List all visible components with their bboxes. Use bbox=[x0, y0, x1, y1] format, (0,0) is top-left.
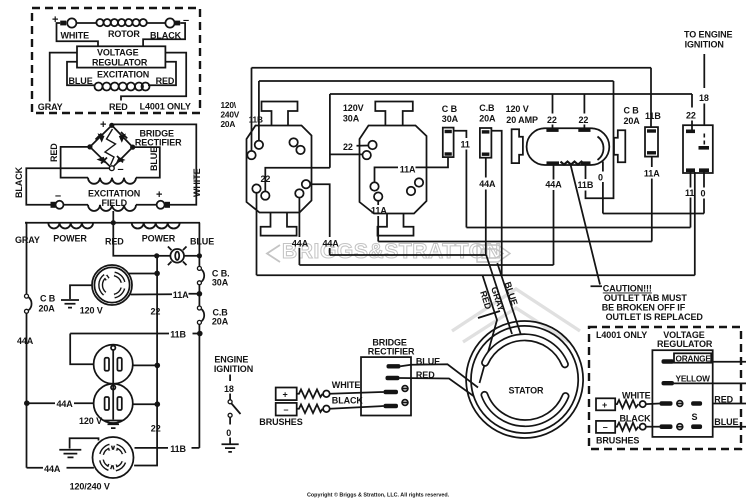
wire to pilot lamp bbox=[157, 255, 171, 257]
wire 44A drop 2 bbox=[298, 198, 300, 265]
slot blue bbox=[387, 364, 401, 368]
svg-text:+: + bbox=[602, 400, 607, 410]
wire 44A gray drop bbox=[256, 193, 258, 275]
svg-text:GRAY: GRAY bbox=[15, 235, 40, 245]
excitation coil bbox=[95, 83, 150, 91]
svg-text:11B: 11B bbox=[249, 115, 263, 125]
svg-text:22: 22 bbox=[151, 424, 161, 434]
wire stator bus RED bbox=[330, 254, 487, 256]
wire GRAY down bbox=[25, 223, 27, 295]
junction dot bbox=[154, 253, 159, 258]
svg-text:BLUE: BLUE bbox=[69, 76, 93, 86]
wire white 2 bbox=[646, 403, 660, 406]
octagon2 terminals bbox=[368, 141, 376, 149]
svg-text:44A: 44A bbox=[292, 239, 309, 249]
svg-text:20A: 20A bbox=[479, 114, 496, 124]
wire line1 drop to breaker block bbox=[650, 68, 652, 127]
svg-text:120 V: 120 V bbox=[506, 104, 529, 114]
wire lamp to BLUE drop bbox=[184, 255, 199, 257]
wire regulator left inner (BLUE) bbox=[67, 62, 94, 85]
resistor black 2 bbox=[615, 423, 638, 431]
bridge rectifier box U2 bbox=[361, 357, 411, 415]
svg-text:L4001 ONLY: L4001 ONLY bbox=[596, 330, 647, 340]
caution leader line bbox=[571, 165, 603, 287]
wire 22 into block bbox=[691, 94, 693, 130]
svg-text:120 V: 120 V bbox=[80, 306, 103, 316]
wire stator bus GRAY bbox=[299, 264, 553, 266]
wire RED diagonal to stator bbox=[480, 275, 498, 383]
diode top-right bbox=[119, 134, 126, 143]
wire 0 bus bbox=[603, 213, 704, 215]
power coil right bbox=[132, 223, 180, 229]
ground wire left bbox=[70, 285, 92, 299]
svg-text:44A: 44A bbox=[57, 399, 74, 409]
svg-text:20 AMP: 20 AMP bbox=[506, 115, 538, 125]
svg-text:BLUE: BLUE bbox=[190, 237, 214, 247]
svg-text:RED: RED bbox=[49, 143, 59, 162]
svg-text:S: S bbox=[692, 412, 698, 422]
wire regulator right inner (RED) bbox=[148, 62, 176, 85]
wire 44A drop from duplex bbox=[553, 165, 555, 265]
octagon1 bottom bracket bbox=[261, 213, 297, 236]
svg-text:BLACK: BLACK bbox=[332, 396, 364, 406]
rotor coil bbox=[76, 22, 96, 24]
L4001 only dashed enclosure (bottom-right) bbox=[589, 327, 741, 449]
slot yellow bbox=[662, 381, 675, 385]
svg-text:OUTLET IS REPLACED: OUTLET IS REPLACED bbox=[606, 312, 704, 322]
svg-text:+: + bbox=[100, 119, 106, 131]
grid line 3 (22 bus) bbox=[330, 93, 692, 95]
wire center tap from field coil bbox=[112, 211, 114, 223]
svg-text:POWER: POWER bbox=[53, 234, 87, 244]
wire RED tap down bbox=[113, 223, 156, 256]
svg-text:C B: C B bbox=[442, 104, 458, 114]
wire BLUE riser mid bbox=[198, 285, 200, 306]
svg-text:11A: 11A bbox=[644, 169, 660, 179]
wire 11A octagon2 to CB30A bbox=[375, 157, 449, 182]
ground symbol bbox=[61, 300, 79, 308]
svg-text:BRUSHES: BRUSHES bbox=[259, 417, 302, 427]
slot white bbox=[384, 390, 399, 394]
svg-text:0: 0 bbox=[598, 173, 603, 183]
svg-text:11B: 11B bbox=[170, 444, 186, 454]
ground symbol ignition bbox=[222, 444, 239, 452]
svg-text:11: 11 bbox=[685, 188, 694, 198]
circuit breaker C.B 20A (right of column) bbox=[197, 306, 201, 310]
wire 44A jog from octagon1 bbox=[310, 184, 330, 255]
octagon outlet 2 (120V 30A) bbox=[360, 126, 427, 214]
wire 11B to duplex bbox=[70, 333, 200, 335]
wire yellow out bbox=[674, 382, 746, 384]
svg-text:YELLOW: YELLOW bbox=[676, 373, 711, 383]
wire GRAY diagonal to stator bbox=[486, 255, 512, 334]
diode top-left bbox=[98, 133, 105, 142]
varistor zigzag inside bridge bbox=[105, 129, 116, 165]
svg-text:–: – bbox=[118, 164, 124, 176]
wire white to box bbox=[330, 392, 384, 394]
breaker block 11B/11A bbox=[645, 127, 658, 157]
svg-text:+: + bbox=[283, 390, 288, 400]
svg-text:+: + bbox=[156, 189, 162, 201]
wire black to box bbox=[330, 406, 384, 409]
svg-text:REGULATOR: REGULATOR bbox=[657, 339, 713, 349]
svg-text:–: – bbox=[603, 422, 608, 432]
junction 44A tap bbox=[24, 400, 30, 406]
svg-text:C B: C B bbox=[624, 106, 640, 116]
label box ORANGE bbox=[674, 353, 711, 362]
svg-text:18: 18 bbox=[699, 93, 709, 103]
L4001-only dashed enclosure (top-left) bbox=[32, 8, 200, 113]
duplex bottom slots and tab bbox=[547, 161, 560, 165]
svg-text:ROTOR: ROTOR bbox=[108, 29, 140, 39]
svg-text:–: – bbox=[183, 15, 189, 27]
circuit breaker C B. 30A bbox=[197, 266, 201, 270]
wire 11 drop from block bbox=[690, 172, 692, 228]
slot blue pair bbox=[660, 424, 673, 429]
svg-text:RECTIFIER: RECTIFIER bbox=[135, 138, 182, 148]
wire left node loop to field coil top bbox=[61, 147, 90, 178]
svg-text:VOLTAGE: VOLTAGE bbox=[97, 48, 139, 58]
diode bottom-right bbox=[116, 157, 126, 163]
svg-text:11A: 11A bbox=[400, 165, 416, 175]
resistor black bbox=[297, 405, 323, 414]
octagon1 top bracket bbox=[262, 102, 298, 126]
svg-text:STATOR: STATOR bbox=[509, 386, 544, 396]
wire stator bus BLUE (44A) bbox=[257, 274, 695, 276]
wire rotor left to regulator bbox=[57, 23, 99, 46]
wire 22 link octagon1 to octagon2 bbox=[265, 94, 363, 191]
wire 11A drop from block bbox=[651, 157, 653, 242]
svg-text:44A: 44A bbox=[545, 179, 562, 189]
svg-text:RED: RED bbox=[109, 102, 128, 112]
voltage regulator box U1 bbox=[77, 46, 165, 67]
wire BLUE drop bbox=[198, 223, 200, 267]
wire 0 drop from block bbox=[703, 172, 705, 214]
svg-text:WHITE: WHITE bbox=[332, 380, 361, 390]
wire 11B to outlet bbox=[135, 447, 200, 449]
svg-text:44A: 44A bbox=[17, 336, 34, 346]
rotor right terminal bbox=[147, 22, 166, 24]
svg-text:22: 22 bbox=[686, 111, 696, 121]
voltage regulator box U3 bbox=[652, 350, 712, 437]
svg-text:C.B: C.B bbox=[479, 103, 495, 113]
svg-text:Copyright © Briggs & Stratton,: Copyright © Briggs & Stratton, LLC. All … bbox=[307, 492, 450, 499]
resistor white 2 bbox=[615, 400, 638, 408]
stator outer ring bbox=[466, 321, 583, 438]
wire red to stator bbox=[400, 378, 474, 396]
duplex outlet upper bbox=[94, 345, 133, 384]
svg-text:20A: 20A bbox=[39, 304, 56, 314]
svg-text:120V: 120V bbox=[343, 103, 364, 113]
wire 11B loop from duplex bbox=[586, 81, 614, 198]
engine ignition terminal block bbox=[683, 125, 713, 173]
ground wire from outlet bbox=[70, 438, 99, 448]
wire line1 drop to octagon1 bbox=[251, 68, 253, 151]
svg-text:120\: 120\ bbox=[221, 100, 237, 110]
wire right node to BLUE drop bbox=[133, 147, 160, 178]
svg-text:GRAY: GRAY bbox=[38, 102, 63, 112]
svg-text:WHITE: WHITE bbox=[61, 31, 90, 41]
svg-text:L4001 ONLY: L4001 ONLY bbox=[140, 102, 191, 112]
slot red pair bbox=[660, 401, 673, 406]
svg-text:44A: 44A bbox=[479, 179, 496, 189]
stator winding upper arc bbox=[485, 337, 565, 364]
outlet 120V (twist-lock) bbox=[92, 265, 132, 305]
grid line 2 bbox=[259, 80, 614, 82]
wire BLUE diagonal to stator bbox=[497, 263, 521, 335]
svg-text:IGNITION: IGNITION bbox=[214, 364, 253, 374]
wires 22 slots up to bus bbox=[552, 94, 554, 128]
wire 22 riser bbox=[134, 257, 157, 466]
duplex outlet 120V 20AMP (stadium) bbox=[527, 128, 610, 165]
power winding bus bbox=[25, 222, 200, 224]
svg-text:0: 0 bbox=[226, 428, 231, 438]
svg-text:20A: 20A bbox=[624, 116, 641, 126]
pilot lamp bbox=[170, 249, 184, 263]
svg-text:EXCITATION: EXCITATION bbox=[88, 189, 140, 199]
wire blue to stator bbox=[401, 364, 479, 387]
node - (bottom, open) bbox=[109, 166, 114, 171]
slot orange bbox=[662, 359, 675, 363]
brush plus terminal bbox=[276, 388, 297, 401]
octagon1 terminals bbox=[255, 141, 263, 149]
svg-text:44A: 44A bbox=[323, 239, 340, 249]
svg-text:EXCITATION: EXCITATION bbox=[97, 70, 149, 80]
svg-text:+: + bbox=[52, 14, 58, 26]
svg-text:–: – bbox=[284, 404, 289, 414]
junction dots on 22 riser bbox=[155, 363, 161, 369]
svg-text:IGNITION: IGNITION bbox=[685, 40, 724, 50]
power coil left bbox=[48, 223, 93, 229]
brush plus terminal 2 bbox=[596, 398, 615, 410]
svg-text:11B: 11B bbox=[578, 180, 594, 190]
octagon2 top bracket bbox=[375, 102, 413, 126]
excitation field top coil bbox=[88, 178, 136, 184]
node + (top) bbox=[109, 123, 114, 128]
wire outlet top terminal bbox=[129, 273, 158, 275]
node left bbox=[87, 144, 92, 149]
octagon2 bottom bracket bbox=[378, 214, 414, 236]
svg-text:RECTIFIER: RECTIFIER bbox=[368, 347, 415, 357]
ignition switch 18 bbox=[229, 375, 231, 382]
duplex center neutral strap bbox=[112, 350, 114, 420]
svg-text:RED: RED bbox=[156, 76, 175, 86]
svg-text:11: 11 bbox=[461, 140, 470, 150]
wire 11 bus bbox=[466, 227, 690, 229]
duplex top slots bbox=[546, 128, 558, 132]
wire duplex lower right bbox=[133, 403, 158, 405]
octagon outlet 1 (120/240V 20A) bbox=[247, 126, 312, 213]
svg-text:11B: 11B bbox=[170, 330, 186, 340]
svg-text:WHITE: WHITE bbox=[622, 390, 651, 400]
wire bottom node to black drop to minus brush bbox=[26, 168, 109, 205]
svg-text:22: 22 bbox=[343, 142, 353, 152]
wire plus terminal to top node (WHITE) bbox=[112, 124, 197, 204]
wire orange out bbox=[711, 361, 746, 363]
crossing tick bbox=[478, 311, 500, 318]
wire duplex upper left bbox=[70, 334, 93, 365]
theta marks bbox=[402, 386, 408, 392]
wire 18 drop bbox=[703, 54, 705, 125]
wire CB20A top riser bbox=[491, 131, 501, 276]
diode bottom-left bbox=[97, 157, 107, 164]
svg-text:BLACK: BLACK bbox=[620, 413, 652, 423]
svg-text:30A: 30A bbox=[212, 278, 229, 288]
duplex right bracket bbox=[614, 130, 625, 162]
svg-text:22: 22 bbox=[151, 307, 161, 317]
grid line 1 (top bus) bbox=[252, 67, 652, 69]
svg-text:BRUSHES: BRUSHES bbox=[596, 436, 639, 446]
bridge rectifier diamond bbox=[90, 125, 133, 168]
svg-text:30A: 30A bbox=[442, 114, 459, 124]
wire 11A bus bbox=[378, 241, 652, 243]
svg-text:C B: C B bbox=[40, 294, 56, 304]
brush minus terminal bbox=[276, 403, 297, 416]
svg-text:11A: 11A bbox=[173, 290, 189, 300]
svg-text:18: 18 bbox=[224, 384, 234, 394]
resistor white bbox=[297, 390, 323, 399]
svg-text:11B: 11B bbox=[645, 111, 661, 121]
brush minus terminal 2 bbox=[596, 421, 615, 433]
wire 0 drop from duplex bbox=[602, 162, 604, 214]
svg-text:RED: RED bbox=[105, 237, 124, 247]
duplex left bracket bbox=[512, 129, 523, 163]
svg-text:BLACK: BLACK bbox=[14, 166, 24, 198]
wire regulator right outer bbox=[121, 53, 186, 101]
slot red bbox=[386, 376, 400, 380]
svg-text:BE BROKEN OFF IF: BE BROKEN OFF IF bbox=[602, 302, 686, 312]
svg-text:20A: 20A bbox=[212, 317, 229, 327]
wire 11 riser bbox=[454, 131, 467, 228]
svg-text:22: 22 bbox=[547, 115, 557, 125]
outlet 120/240V (twist-lock 4 slot) bbox=[93, 437, 134, 478]
svg-text:11A: 11A bbox=[371, 206, 387, 216]
svg-text:BLUE: BLUE bbox=[149, 147, 159, 171]
wire 44A drop from CB20A bbox=[485, 158, 487, 255]
duplex right inner arc bbox=[598, 137, 604, 161]
svg-text:120/240 V: 120/240 V bbox=[70, 482, 110, 492]
svg-text:REGULATOR: REGULATOR bbox=[92, 58, 148, 68]
wire 44A down bbox=[26, 313, 28, 468]
wire 44A bottom bbox=[27, 467, 94, 469]
svg-text:ORANGE: ORANGE bbox=[676, 353, 712, 363]
svg-text:22: 22 bbox=[579, 115, 589, 125]
svg-text:BRIGGS&STRATTON: BRIGGS&STRATTON bbox=[282, 240, 501, 263]
wire black 2 bbox=[646, 426, 660, 428]
wire 11A from outlet bbox=[131, 293, 200, 296]
wire rotor right to regulator bbox=[143, 23, 185, 46]
wire 11 long drop from block bbox=[694, 172, 696, 275]
wire duplex upper right bbox=[133, 364, 158, 366]
node right bbox=[130, 145, 135, 150]
svg-text:120 V: 120 V bbox=[79, 416, 102, 426]
svg-text:240V: 240V bbox=[221, 110, 240, 120]
svg-text:20A: 20A bbox=[221, 119, 236, 129]
wire 11A drop from octagon2 bbox=[377, 201, 379, 242]
ground symbol bbox=[59, 450, 81, 458]
excitation field bottom coil bbox=[64, 204, 89, 206]
svg-text:TO ENGINE: TO ENGINE bbox=[684, 30, 733, 40]
wire regulator left outer (GRAY) bbox=[50, 53, 77, 102]
duplex outlet lower bbox=[94, 384, 133, 423]
svg-text:BLUE: BLUE bbox=[714, 417, 738, 427]
ground symbol below duplex bbox=[104, 421, 123, 429]
wire line2 drop to octagon1 (11B) bbox=[258, 81, 260, 141]
wire hot riser down bbox=[198, 324, 200, 448]
slot black bbox=[384, 404, 399, 408]
svg-text:OUTLET TAB MUST: OUTLET TAB MUST bbox=[604, 293, 687, 303]
svg-text:POWER: POWER bbox=[142, 234, 176, 244]
junction RED tap bbox=[111, 220, 116, 225]
svg-text:44A: 44A bbox=[44, 464, 61, 474]
circuit breaker CB 20A (left) bbox=[25, 294, 29, 298]
svg-text:30A: 30A bbox=[343, 114, 360, 124]
wire 44A tap to duplex bbox=[27, 402, 94, 404]
stator winding lower arc bbox=[485, 395, 566, 423]
stator inner ring bbox=[471, 326, 578, 433]
svg-text:0: 0 bbox=[701, 189, 706, 199]
